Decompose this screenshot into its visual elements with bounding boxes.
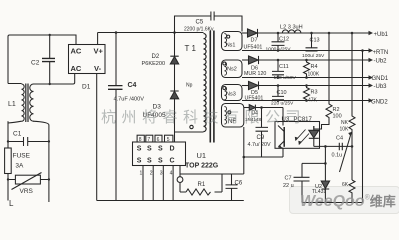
varistor VRS <box>8 179 49 181</box>
svg-text:Ns3: Ns3 <box>226 92 236 98</box>
wire GND1 row <box>242 77 372 79</box>
wire V- down <box>96 74 98 201</box>
svg-text:MUR 120: MUR 120 <box>244 71 266 77</box>
svg-text:C6: C6 <box>235 181 243 187</box>
svg-text:P6KE200: P6KE200 <box>142 61 166 67</box>
svg-text:AC: AC <box>71 64 82 73</box>
svg-text:C7: C7 <box>285 176 292 182</box>
resistor R3 <box>304 86 310 101</box>
svg-text:C4: C4 <box>336 136 343 142</box>
svg-text:6K: 6K <box>342 182 349 188</box>
svg-text:V-: V- <box>94 64 102 73</box>
svg-text:AC: AC <box>71 47 82 56</box>
wire control rail <box>180 174 244 192</box>
node RTN terminal <box>369 48 374 52</box>
svg-text:C2: C2 <box>31 60 40 67</box>
svg-text:4: 4 <box>170 171 173 177</box>
svg-text:8: 8 <box>139 137 142 143</box>
capacitor C6 <box>226 174 238 201</box>
fuse FUSE 3A <box>5 148 12 174</box>
wire L1 right top to bridge AC <box>33 74 75 85</box>
svg-text:L2 3 3uH: L2 3 3uH <box>280 25 303 31</box>
svg-text:C9: C9 <box>257 135 265 141</box>
capacitor C2 <box>49 35 51 84</box>
wire U2 cathode column <box>324 146 326 181</box>
capacitor C9 <box>256 108 269 158</box>
wire drain link <box>175 132 204 142</box>
svg-text:S: S <box>137 146 142 153</box>
resistor R2 100 <box>314 33 332 129</box>
svg-text:R1: R1 <box>198 182 206 188</box>
watermark chinese <box>101 106 306 127</box>
svg-text:R3: R3 <box>311 90 318 96</box>
wire RTN tie column <box>362 51 364 203</box>
svg-text:C: C <box>170 158 175 165</box>
winding Ns1 <box>222 32 243 51</box>
svg-text:4.7uF /400V: 4.7uF /400V <box>114 97 145 103</box>
diode D3 UF4005 <box>170 64 178 91</box>
watermark weeqoo <box>300 191 396 211</box>
svg-text:S: S <box>137 158 142 165</box>
capacitor C5 <box>175 12 243 33</box>
svg-text:C13: C13 <box>310 38 320 44</box>
svg-text:TOP 222G: TOP 222G <box>185 163 219 170</box>
svg-text:C1: C1 <box>13 131 22 138</box>
svg-text:C10: C10 <box>277 90 287 96</box>
svg-text:C12: C12 <box>279 37 289 43</box>
svg-text:4.7u/ 20V: 4.7u/ 20V <box>248 142 271 148</box>
resistor R4 <box>304 60 310 78</box>
inductor L1 core <box>26 84 28 123</box>
svg-text:C5: C5 <box>196 20 204 26</box>
wire collector feed <box>282 108 284 122</box>
svg-text:GND2: GND2 <box>371 100 388 106</box>
wire LED cathode to U2 <box>314 145 352 147</box>
svg-text:Np: Np <box>186 83 193 89</box>
svg-text:10K: 10K <box>340 127 350 133</box>
capacitor C7 <box>294 163 326 202</box>
transformer T1 primary <box>204 34 207 132</box>
svg-text:S: S <box>147 158 152 165</box>
svg-text:L: L <box>9 199 14 208</box>
wire primary bottom rail <box>97 200 244 202</box>
svg-text:-Ub2: -Ub2 <box>374 59 388 65</box>
svg-text:D7: D7 <box>251 38 258 44</box>
inductor L1 right winding <box>30 84 34 121</box>
U1 TOP222G chip <box>133 142 186 166</box>
resistor 6K <box>349 180 355 203</box>
diode D5 UF5401 <box>242 85 249 87</box>
wire control node <box>244 148 283 157</box>
svg-text:VRS: VRS <box>20 188 34 195</box>
node control pin <box>179 166 181 177</box>
capacitor C10 <box>272 86 284 101</box>
wire input top line <box>8 35 76 84</box>
U1 pins 1-4 <box>143 166 173 201</box>
svg-text:C11: C11 <box>279 64 289 70</box>
svg-text:UF5401: UF5401 <box>244 45 263 51</box>
svg-text:R2: R2 <box>333 107 340 113</box>
winding NF <box>222 104 244 128</box>
capacitor C11 <box>272 60 284 78</box>
svg-text:+RTN: +RTN <box>373 50 389 56</box>
svg-text:100K: 100K <box>308 72 320 78</box>
wire left line down <box>7 121 9 200</box>
svg-text:6: 6 <box>157 137 160 143</box>
winding Ns3 <box>222 85 243 101</box>
svg-text:22 u: 22 u <box>283 183 294 189</box>
node +Ub1 terminal <box>369 31 374 35</box>
svg-text:5: 5 <box>167 137 170 143</box>
svg-text:3: 3 <box>160 171 163 177</box>
svg-text:7: 7 <box>147 137 150 143</box>
svg-text:GND1: GND1 <box>372 76 389 82</box>
wire secondary ground rail <box>302 202 363 204</box>
diode D6 MUR120 <box>242 59 249 61</box>
wire V+ rail <box>98 33 204 45</box>
svg-text:L1: L1 <box>8 101 16 108</box>
svg-text:D2: D2 <box>152 54 160 60</box>
potentiometer NK <box>349 33 355 180</box>
shunt regulator U2 TL431 <box>321 181 329 189</box>
inductor L2 3.3uH <box>282 30 301 33</box>
svg-text:T 1: T 1 <box>185 44 197 53</box>
resistor R1 <box>180 189 211 195</box>
capacitor C12 <box>272 33 285 51</box>
node GND1 terminal <box>369 75 374 79</box>
svg-text:0.1u: 0.1u <box>332 153 343 159</box>
node -Ub3 terminal <box>369 83 374 87</box>
svg-text:S: S <box>147 146 152 153</box>
svg-text:100u/ 25V: 100u/ 25V <box>302 53 325 59</box>
node GND2 terminal <box>369 98 374 102</box>
svg-text:S: S <box>158 146 163 153</box>
capacitor C1 <box>8 137 49 146</box>
svg-text:D: D <box>170 146 175 153</box>
svg-text:FUSE: FUSE <box>13 153 31 160</box>
svg-text:S: S <box>158 158 163 165</box>
wire NF return <box>243 127 245 174</box>
svg-text:V+: V+ <box>94 47 104 56</box>
capacitor C4 0.1u <box>339 143 342 151</box>
transformer T1 core <box>210 31 214 143</box>
svg-text:Ns1: Ns1 <box>226 43 236 49</box>
svg-text:2200 p/1.6Kv: 2200 p/1.6Kv <box>184 27 214 33</box>
wire GND2 row <box>242 100 372 102</box>
optocoupler U3 PC817 <box>275 122 320 149</box>
svg-text:100: 100 <box>333 114 342 120</box>
capacitor C4 <box>115 33 117 201</box>
svg-text:Ns2: Ns2 <box>227 67 237 73</box>
svg-text:NK: NK <box>341 120 349 126</box>
inductor L1 left winding <box>8 84 24 124</box>
wire RTN row <box>242 50 372 52</box>
diode D4 1N4148 <box>244 107 249 109</box>
svg-text:3A: 3A <box>15 163 24 170</box>
svg-text:U1: U1 <box>197 151 207 160</box>
svg-text:R4: R4 <box>311 64 318 70</box>
wire L1 right bottom down <box>33 121 49 202</box>
svg-text:C4: C4 <box>128 82 137 89</box>
diode D2 P6KE200 <box>170 33 178 57</box>
svg-text:2: 2 <box>150 171 153 177</box>
svg-text:-Ub3: -Ub3 <box>374 84 388 90</box>
bridge rectifier D1 <box>69 45 106 74</box>
capacitor C13 <box>306 33 318 51</box>
svg-text:+Ub1: +Ub1 <box>374 32 389 38</box>
svg-text:1: 1 <box>140 171 143 177</box>
winding Ns2 <box>222 60 243 78</box>
node -Ub2 terminal <box>369 58 374 62</box>
watermark panel <box>289 186 399 214</box>
diode D7 UF5401 <box>242 32 248 34</box>
svg-text:D1: D1 <box>82 84 91 91</box>
